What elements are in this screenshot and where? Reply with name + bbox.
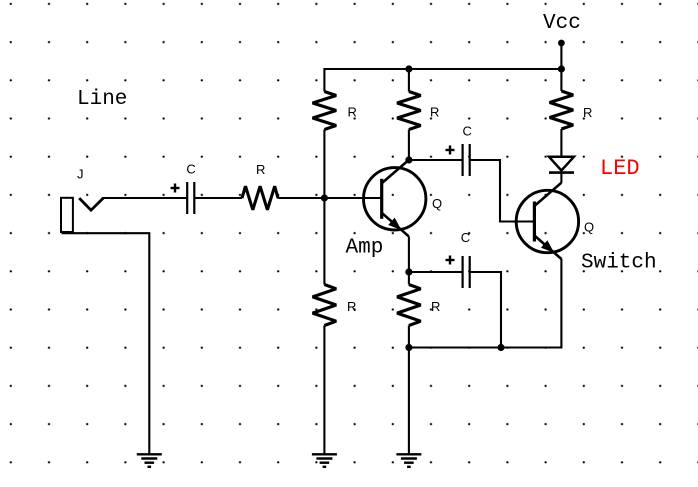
svg-text:Q: Q (432, 196, 442, 211)
svg-text:C: C (186, 162, 195, 177)
svg-text:R: R (430, 105, 439, 120)
svg-text:Vcc: Vcc (543, 12, 581, 35)
svg-text:Q: Q (584, 220, 594, 235)
svg-text:R: R (583, 105, 592, 120)
svg-text:Line: Line (77, 88, 127, 111)
svg-text:C: C (463, 124, 472, 139)
svg-text:Switch: Switch (581, 252, 657, 275)
svg-text:LED: LED (600, 156, 640, 181)
svg-text:C: C (461, 230, 470, 245)
svg-text:R: R (431, 299, 440, 314)
svg-text:R: R (348, 104, 357, 119)
svg-text:R: R (256, 162, 265, 177)
svg-text:Amp: Amp (346, 237, 384, 260)
svg-text:J: J (77, 166, 84, 181)
svg-text:R: R (347, 299, 356, 314)
